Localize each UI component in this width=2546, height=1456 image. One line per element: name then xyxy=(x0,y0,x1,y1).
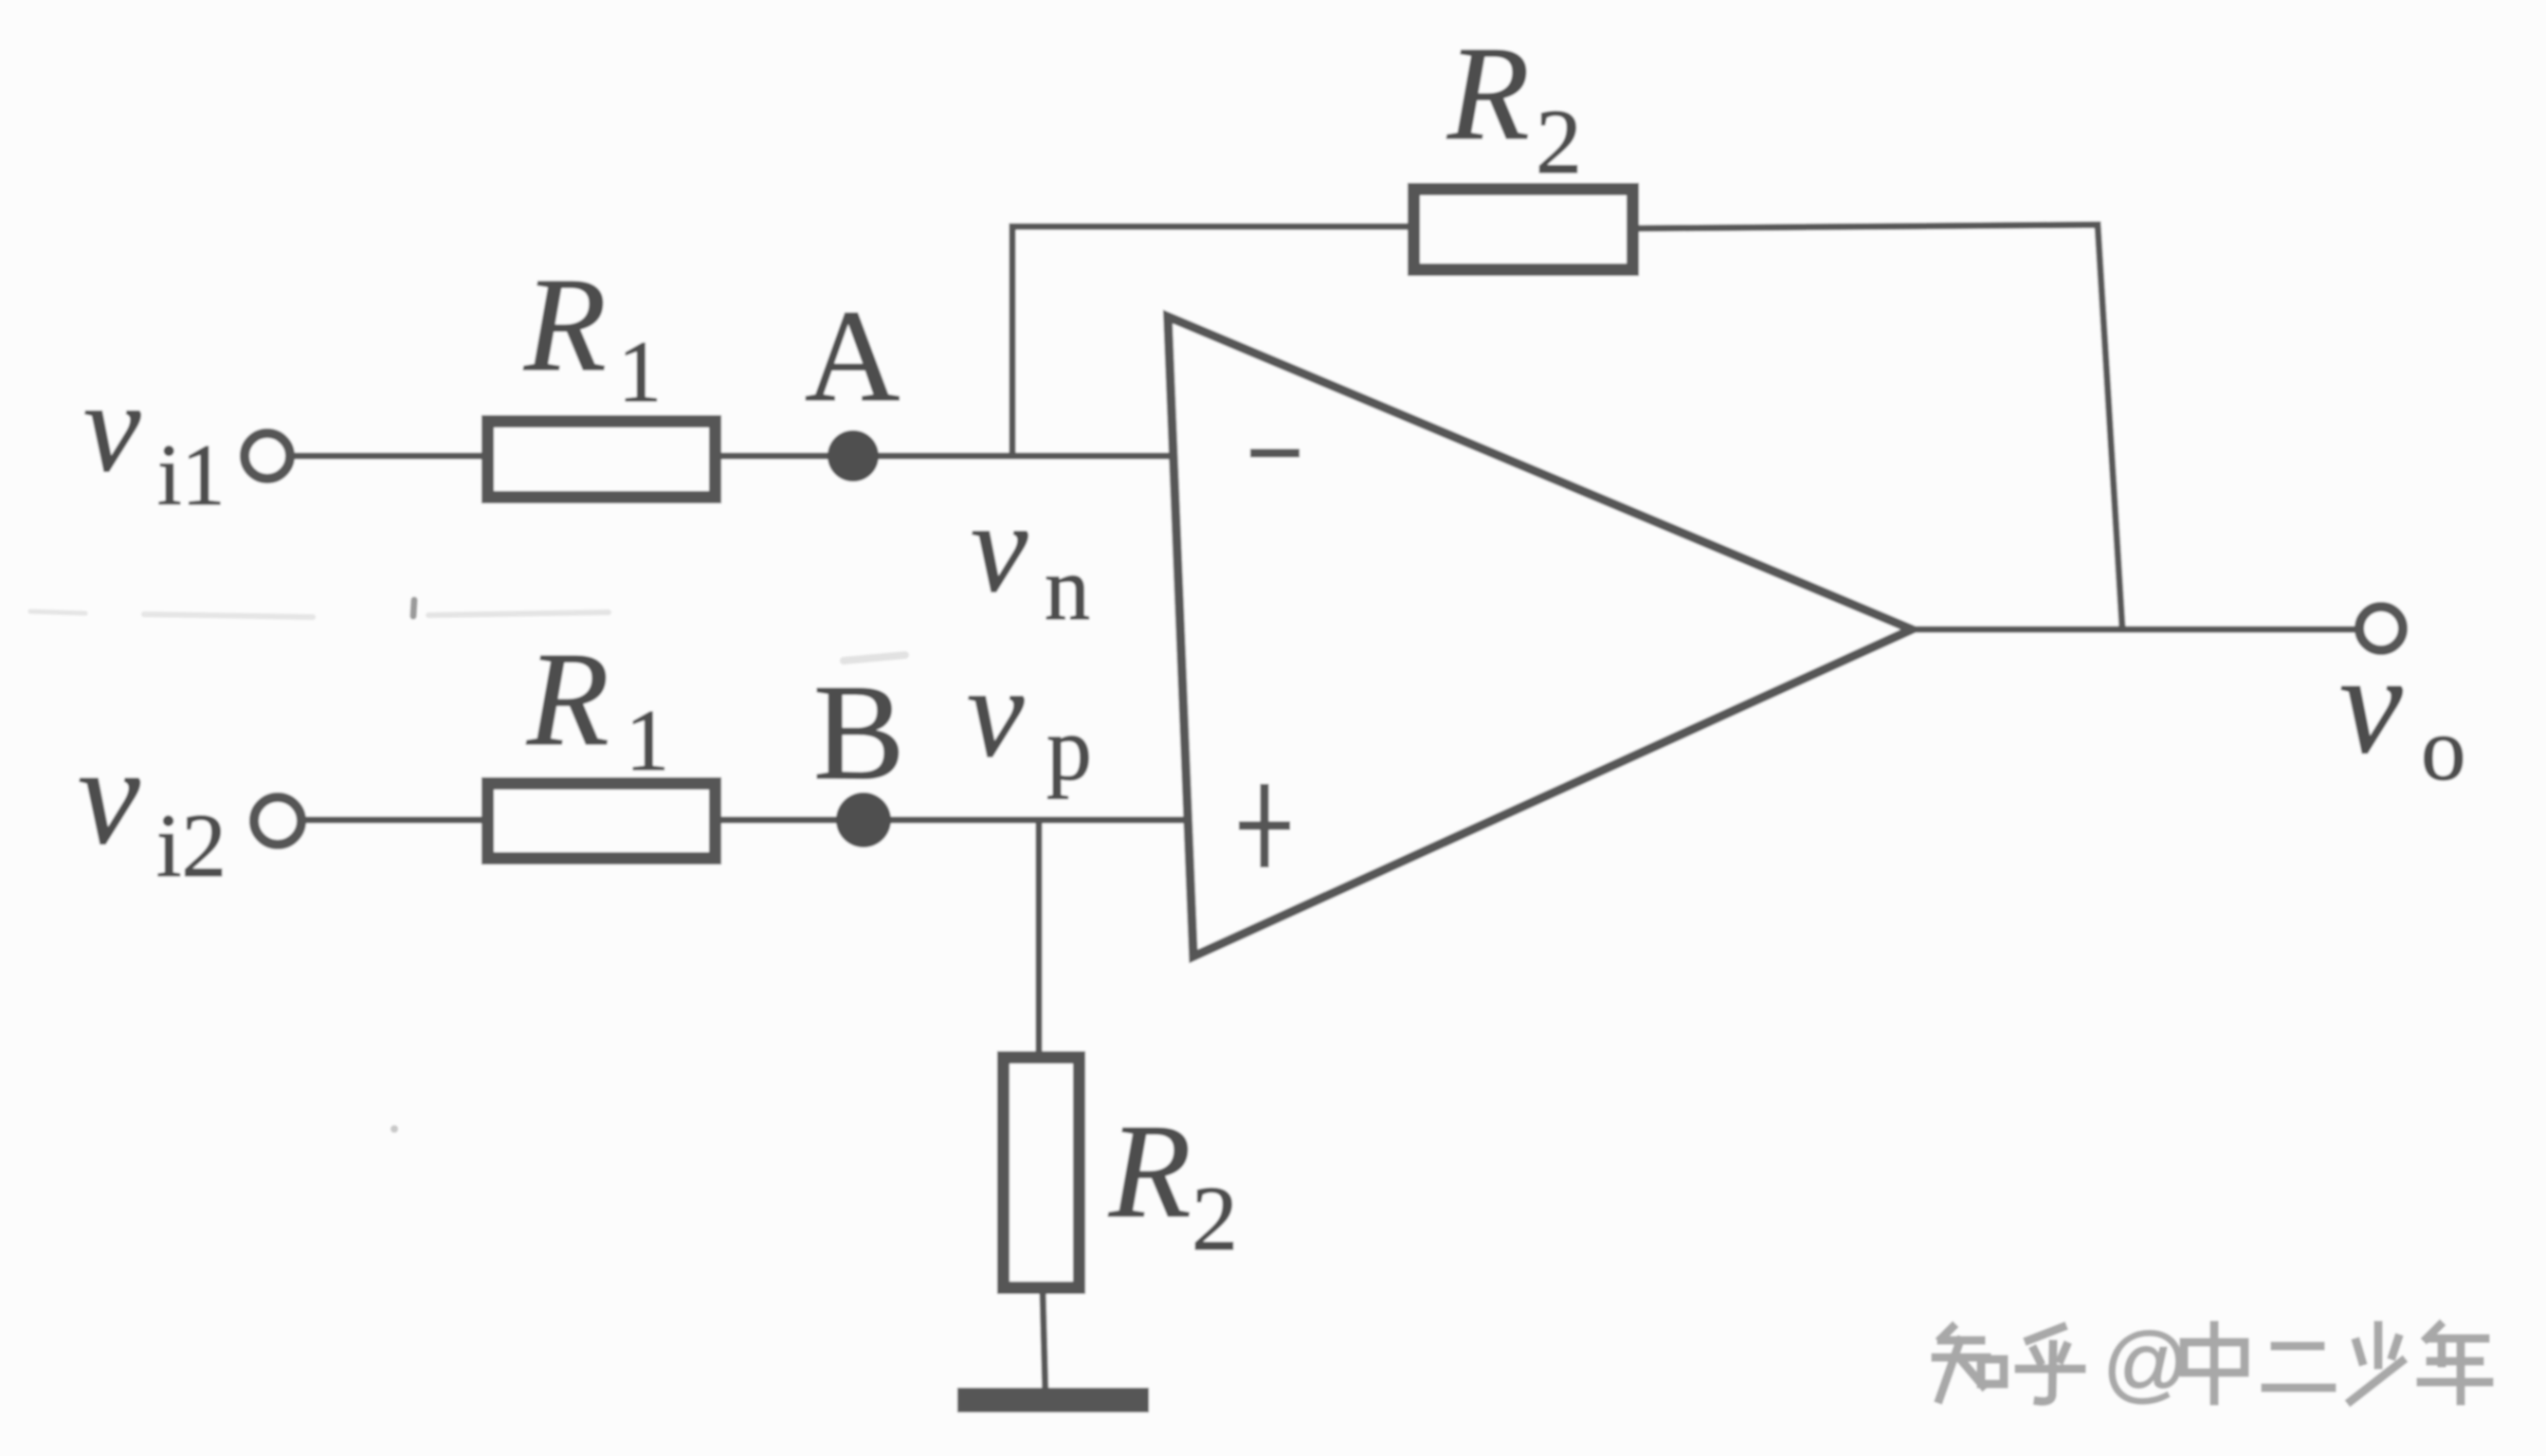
op-amp U1 xyxy=(1168,317,1912,956)
svg-text:v: v xyxy=(83,356,141,499)
wire node A up to feedback xyxy=(1009,227,1016,456)
svg-text:R: R xyxy=(1446,18,1530,168)
svg-text:v: v xyxy=(971,477,1028,619)
svg-text:2: 2 xyxy=(1191,1168,1238,1270)
terminal v_i1 xyxy=(245,433,290,479)
node A xyxy=(827,430,879,482)
ground xyxy=(957,1388,1149,1412)
svg-text:R: R xyxy=(1108,1096,1191,1246)
label v_p xyxy=(967,642,1092,799)
label R2 (feedback) xyxy=(1446,18,1582,193)
乎 xyxy=(2028,1327,2063,1340)
svg-text:R: R xyxy=(523,249,607,399)
少 xyxy=(2374,1325,2383,1365)
wire feedback right segment xyxy=(1633,225,2122,628)
svg-text:v: v xyxy=(78,719,140,874)
label R2 (to ground) xyxy=(1108,1096,1238,1270)
watermark 知乎 @中二少年 xyxy=(1936,1327,2082,1401)
svg-text:@: @ xyxy=(2102,1317,2189,1411)
svg-text:R: R xyxy=(526,624,609,773)
wire node vp down to R2 xyxy=(1036,820,1043,1058)
resistor R2 (feedback) xyxy=(1414,190,1633,270)
wire R1 to op-amp inverting input xyxy=(715,453,1173,460)
wire R1 to op-amp non-inverting input xyxy=(715,817,1185,824)
label v_i1 xyxy=(83,356,226,523)
label v_i2 xyxy=(78,719,227,896)
resistor R2 (to ground) xyxy=(1004,1058,1080,1288)
svg-text:1: 1 xyxy=(626,692,669,789)
svg-text:n: n xyxy=(1045,537,1090,639)
terminal v_o xyxy=(2359,607,2403,650)
svg-text:v: v xyxy=(2339,626,2403,783)
年 xyxy=(2427,1325,2440,1338)
二 xyxy=(2275,1342,2320,1351)
svg-text:1: 1 xyxy=(618,323,662,420)
resistor R1 (top) xyxy=(488,422,716,498)
plus symbol xyxy=(1239,784,1290,867)
svg-text:p: p xyxy=(1046,698,1092,799)
svg-text:2: 2 xyxy=(1536,91,1582,193)
wire feedback left segment xyxy=(1009,224,1415,230)
scan smudges (decorative) xyxy=(30,600,905,1133)
wire v_i1 to R1 xyxy=(290,453,489,460)
label v_o xyxy=(2339,626,2466,799)
svg-text:v: v xyxy=(967,642,1025,784)
svg-text:i1: i1 xyxy=(157,427,226,523)
node B xyxy=(836,792,891,847)
svg-text:A: A xyxy=(805,283,900,429)
知 xyxy=(1941,1327,1953,1338)
label R1 (top) xyxy=(523,249,662,420)
label v_n xyxy=(971,477,1090,639)
minus symbol xyxy=(1250,449,1300,458)
resistor R1 (bottom) xyxy=(488,784,716,859)
terminal v_i2 xyxy=(254,797,301,845)
wire R2 to ground xyxy=(1043,1291,1046,1400)
label R1 (bottom) xyxy=(526,624,669,789)
output wire xyxy=(1913,627,2359,633)
svg-text:B: B xyxy=(813,657,905,809)
svg-text:i2: i2 xyxy=(156,795,227,896)
svg-text:o: o xyxy=(2421,699,2466,799)
wire v_i2 to R1 xyxy=(301,817,489,824)
中 xyxy=(2184,1342,2245,1373)
